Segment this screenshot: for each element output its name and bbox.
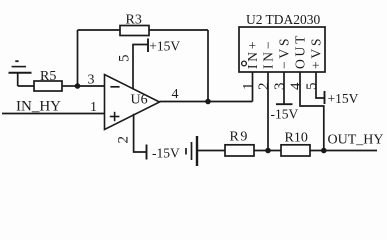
svg-text:1: 1 [90,100,97,115]
svg-text:−VS: −VS [277,36,292,69]
svg-text:2: 2 [256,83,272,91]
U2 pin 4 wire to output rail [300,72,324,151]
wire riser to R3 [78,29,121,31]
svg-text:U6: U6 [131,93,148,108]
svg-text:R9: R9 [230,129,249,144]
wire R5 to node A [62,85,78,87]
resistor R10 [281,131,310,157]
+15V terminal tick (op-amp) [147,39,149,53]
IC U2 TDA2030 box [239,27,325,72]
svg-text:OUT_HY: OUT_HY [328,133,384,148]
U2 pin 2 stub to rail [267,72,269,151]
resistor R9 [225,129,254,156]
U2 pin 5 wire [316,72,325,98]
wire R10 to OUT_HY [310,150,377,152]
svg-text:IN_HY: IN_HY [16,99,61,115]
svg-text:R5: R5 [40,69,56,84]
svg-text:4: 4 [172,87,179,102]
wire R3 to feedback drop [149,29,208,31]
U2 pin-1 marker circle [242,61,247,66]
wire op-amp output to U2 pin 1 [160,101,253,103]
wire gnd to R5 [18,85,34,87]
resistor R5 [34,69,62,91]
svg-text:OUT: OUT [293,33,308,69]
svg-text:3: 3 [272,83,288,91]
wire op-amp V- pin 2 [134,114,147,152]
ground GND2 (bottom rail, sideways) [186,136,197,166]
wire GND2 to R9 [197,150,225,152]
node D junction [321,148,327,154]
U2 pin 3 stub [283,72,285,104]
wire IN_HY to op-amp non-inverting input [2,113,105,115]
svg-text:3: 3 [88,73,95,88]
node A junction [75,83,81,89]
svg-text:+VS: +VS [309,36,324,69]
resistor R3 [120,12,149,35]
svg-text:5: 5 [304,83,320,91]
svg-text:R3: R3 [126,12,142,27]
+15V terminal tick (U2 pin 5) [324,91,326,104]
wire feedback riser [77,30,79,86]
op-amp U6 [105,75,160,130]
svg-text:R10: R10 [285,131,308,146]
svg-text:2: 2 [116,136,132,144]
svg-text:-15V: -15V [152,146,180,161]
ground GND1 (earth, top-left) [9,61,32,86]
node C junction [265,148,271,154]
svg-text:1: 1 [241,83,257,91]
wire R9 to node C [254,150,281,152]
svg-text:4: 4 [288,82,304,90]
wire node A to op-amp inverting input [78,85,105,87]
svg-text:IN−: IN− [261,39,276,69]
-15V terminal tick (U2 pin 3) [276,103,293,105]
svg-text:IN+: IN+ [245,39,260,69]
wire feedback drop [207,30,209,102]
svg-text:-15V: -15V [271,107,299,122]
svg-text:+15V: +15V [149,38,180,53]
svg-text:5: 5 [117,55,133,63]
node B junction (feedback tap) [205,99,211,105]
-15V terminal tick (op-amp) [146,145,148,160]
wire op-amp V+ pin 5 [133,45,148,90]
svg-text:U2TDA2030: U2TDA2030 [246,12,320,27]
U2 pin 1 stub [252,72,254,102]
svg-text:+15V: +15V [328,91,359,106]
